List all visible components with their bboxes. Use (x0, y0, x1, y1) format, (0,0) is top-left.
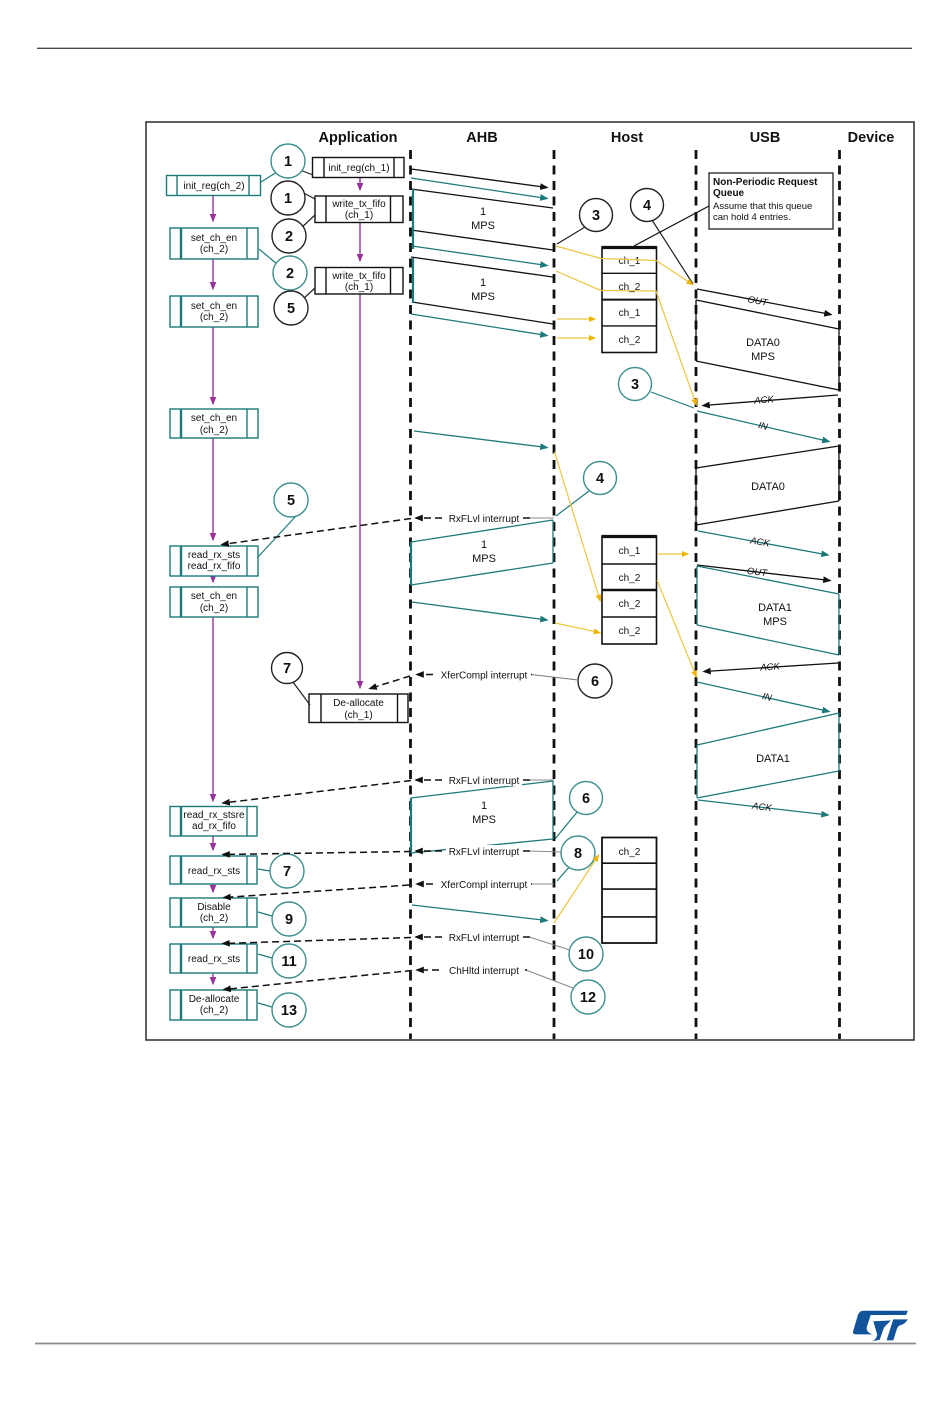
circle 1 (teal) (271, 144, 305, 178)
RxFLvl interrupt 2 diagonal (223, 781, 411, 804)
RxFLvl interrupt 3 dashed (416, 850, 530, 852)
wire purple 6-7 (212, 617, 214, 801)
svg-text:4: 4 (596, 471, 604, 487)
left app lifeline (purple) with arrows (212, 196, 214, 984)
RxFLvl interrupt 2 dashed (416, 779, 530, 781)
svg-text:DATA0: DATA0 (746, 337, 780, 349)
svg-text:1: 1 (480, 277, 486, 289)
svg-text:ACK: ACK (759, 661, 781, 673)
svg-text:init_reg(ch_1): init_reg(ch_1) (328, 163, 389, 174)
wire yellow host to q1 ch_2 row4 (557, 337, 594, 339)
svg-text:(ch_1): (ch_1) (345, 210, 373, 221)
wire yellow host to q1 ch_2 to usb ack point (556, 271, 696, 404)
svg-text:ch_1: ch_1 (619, 256, 641, 267)
wire yellow q2 ch_1 to usb (657, 553, 687, 555)
XferCompl interrupt 2 dashed (417, 883, 532, 885)
wire c9 to read_rx_sts box (258, 516, 296, 557)
wire c6 to host point (557, 227, 585, 244)
svg-text:ACK: ACK (753, 394, 775, 407)
circle 8 (teal) (561, 836, 595, 870)
circle 3 (teal) (619, 368, 652, 401)
circle 5 (black) (274, 291, 308, 325)
wire yellow host to q2 ch_2 row3 (555, 452, 601, 600)
wire yellow host to q1 ch_1 row3 (557, 318, 594, 320)
page bottom rule (35, 1343, 916, 1345)
svg-text:MPS: MPS (471, 220, 495, 232)
beam DATA1 (in, teal) (697, 713, 839, 798)
svg-text:read_rx_sts: read_rx_sts (188, 954, 240, 965)
queue table 2 (602, 536, 657, 644)
svg-text:7: 7 (283, 864, 291, 880)
circle 10 (teal) (569, 937, 603, 971)
wire purple 2-3 (212, 259, 214, 289)
arrow disable (teal) (412, 905, 547, 921)
RxFLvl interrupt 4 dashed (416, 936, 530, 938)
XferCompl interrupt 1 diagonal (370, 676, 410, 689)
circle 11 (teal) (272, 944, 306, 978)
svg-text:ACK: ACK (751, 801, 773, 815)
queue table 3 (602, 838, 657, 944)
wire c1 to init_reg(ch_2) (261, 172, 277, 182)
circle 9 (teal) (272, 902, 306, 936)
svg-text:(ch_1): (ch_1) (344, 710, 372, 721)
svg-text:ad_rx_fifo: ad_rx_fifo (192, 821, 236, 832)
wire c5 to write_tx_fifo#2 (302, 288, 315, 300)
svg-text:7: 7 (283, 661, 291, 677)
wire purple 9-10 (212, 927, 214, 938)
wire yellow host to q3 ch_2 (554, 856, 598, 923)
svg-text:IN: IN (761, 691, 773, 704)
band 1 MPS #4 (rx read, teal) (411, 781, 553, 853)
ChHltd interrupt dashed (417, 969, 527, 971)
svg-text:MPS: MPS (471, 291, 495, 303)
ChHltd interrupt diagonal (224, 971, 412, 990)
svg-text:Host: Host (611, 130, 643, 146)
svg-text:MPS: MPS (763, 616, 787, 628)
arrow set_ch_en#4 (teal) (412, 602, 547, 620)
Device lifeline (838, 150, 841, 1039)
svg-text:MPS: MPS (472, 553, 496, 565)
svg-text:DATA1: DATA1 (758, 602, 792, 614)
svg-text:Queue: Queue (713, 188, 745, 199)
wire c20 to De-allocate(ch_2) (258, 1003, 272, 1007)
beam DATA0 (in) (696, 446, 839, 525)
box set_ch_en (ch_2) #2 (170, 296, 258, 327)
svg-text:(ch_2): (ch_2) (200, 1005, 228, 1016)
application box labels (328, 163, 389, 721)
label RxFLvl interrupt 3 (446, 845, 522, 858)
Host lifeline (553, 150, 556, 1039)
wire purple 8-9 (212, 884, 214, 892)
svg-text:6: 6 (582, 791, 590, 807)
svg-text:3: 3 (592, 208, 600, 224)
circle 5 (teal) (274, 483, 308, 517)
USB lifeline (695, 150, 698, 1039)
wire yellow host to q1 ch_1 to usb (556, 246, 692, 284)
svg-text:11: 11 (281, 954, 296, 970)
box set_ch_en (ch_2) #3 (170, 409, 258, 438)
svg-text:1: 1 (284, 191, 292, 207)
application lifeline (purple) with arrows (359, 178, 361, 688)
arrow set_ch_en#2 (teal) (411, 314, 547, 336)
svg-text:De-allocate: De-allocate (333, 698, 384, 709)
left column boxes (teal) (167, 176, 261, 1021)
svg-text:10: 10 (578, 947, 594, 963)
box read_rx_sts #1 (170, 856, 257, 884)
circle 4 (teal) (584, 462, 617, 495)
svg-text:(ch_2): (ch_2) (200, 312, 228, 323)
wire purple A-B (359, 178, 361, 190)
svg-text:5: 5 (287, 301, 295, 317)
svg-text:5: 5 (287, 493, 295, 509)
svg-text:set_ch_en: set_ch_en (191, 301, 237, 312)
svg-text:read_rx_sts: read_rx_sts (188, 550, 240, 561)
svg-text:(ch_2): (ch_2) (200, 913, 228, 924)
XferCompl interrupt 2 gray tail (531, 883, 554, 885)
XferCompl interrupt 2 diagonal (224, 885, 409, 898)
wire purple 7-8 (212, 836, 214, 850)
connector lines from circles (258, 170, 694, 1007)
svg-text:set_ch_en: set_ch_en (191, 233, 237, 244)
svg-text:ch_2: ch_2 (619, 335, 641, 346)
circle 3 (black) (580, 199, 613, 232)
wire c13 to host point (555, 811, 578, 839)
svg-text:De-allocate: De-allocate (189, 994, 240, 1005)
arrow IN #1 (teal) (697, 411, 829, 442)
wire c10 to host point (556, 491, 589, 516)
label RxFLvl interrupt 2 (446, 774, 522, 787)
svg-text:(ch_2): (ch_2) (200, 425, 228, 436)
box read_rx_sts read_rx_fifo (170, 546, 258, 576)
arrow IN #2 (teal) (697, 682, 829, 712)
box set_ch_en (ch_2) #4 (170, 587, 258, 617)
wire purple B-C (359, 222, 361, 261)
svg-text:13: 13 (281, 1003, 297, 1019)
wire purple 1-2 (212, 196, 214, 221)
circle 2 (black) (272, 219, 306, 253)
box write_tx_fifo (ch_1) #1 (315, 196, 403, 223)
band 1 MPS #1 (411, 189, 553, 250)
svg-text:write_tx_fifo: write_tx_fifo (331, 271, 386, 282)
wire c7 to usb point (652, 220, 693, 284)
svg-text:1: 1 (481, 800, 487, 812)
wire yellow host to q2 ch_2 row4 (555, 623, 599, 633)
svg-text:3: 3 (631, 377, 639, 393)
svg-text:8: 8 (574, 846, 582, 862)
svg-text:Non-Periodic Request: Non-Periodic Request (713, 177, 818, 188)
RxFLvl interrupt 1 gray tail (529, 517, 554, 519)
diagram frame (146, 122, 914, 1040)
circle 4 (black) (631, 189, 664, 222)
svg-text:MPS: MPS (472, 814, 496, 826)
wire purple 10-11 (212, 973, 214, 984)
svg-text:DATA1: DATA1 (756, 753, 790, 765)
box read_rx_sts #2 (170, 944, 257, 973)
svg-text:(ch_2): (ch_2) (200, 244, 228, 255)
label ChHltd interrupt (443, 964, 525, 977)
circle 1 (black) (271, 181, 305, 215)
application column boxes (black) (309, 158, 408, 723)
circle 12 (teal) (571, 980, 605, 1014)
svg-text:2: 2 (286, 266, 294, 282)
XferCompl interrupt 1 gray tail to circle 6 (531, 675, 578, 681)
svg-text:USB: USB (750, 130, 781, 146)
RxFLvl interrupt 1 dashed (416, 517, 530, 519)
circle 6 (black) (578, 664, 612, 698)
svg-text:ch_1: ch_1 (619, 546, 641, 557)
wire purple 3-4 (212, 326, 214, 404)
svg-text:(ch_1): (ch_1) (345, 282, 373, 293)
wire purple C-D (359, 293, 361, 688)
svg-text:set_ch_en: set_ch_en (191, 413, 237, 424)
left column box labels (183, 181, 245, 1016)
svg-text:RxFLvl interrupt: RxFLvl interrupt (449, 514, 520, 525)
arrow OUT #2 (697, 565, 830, 581)
svg-text:9: 9 (285, 912, 293, 928)
svg-text:1: 1 (481, 539, 487, 551)
svg-text:ChHltd interrupt: ChHltd interrupt (449, 966, 519, 977)
wire c4 to set_ch_en#1 (259, 249, 277, 264)
svg-text:can hold 4 entries.: can hold 4 entries. (713, 212, 791, 223)
label RxFLvl interrupt 4 (446, 931, 522, 944)
svg-text:init_reg(ch_2): init_reg(ch_2) (183, 181, 244, 192)
page top rule (37, 47, 912, 49)
box De-allocate (ch_2) (170, 990, 257, 1020)
box write_tx_fifo (ch_1) #2 (315, 268, 403, 295)
label XferCompl interrupt 1 (437, 669, 531, 682)
interrupt arrows (222, 518, 578, 990)
svg-text:write_tx_fifo: write_tx_fifo (331, 199, 386, 210)
circle 13 (teal) (272, 993, 306, 1027)
circle 6 (teal) (570, 782, 603, 815)
wire c2 to write_tx_fifo#1 (300, 191, 315, 199)
svg-text:DATA0: DATA0 (751, 481, 785, 493)
arrow init_reg write (teal) (411, 178, 547, 199)
arrow ACK #3 (device to usb) (704, 663, 838, 672)
AHB to Host command arrows and MPS bands (411, 169, 553, 921)
svg-text:read_rx_stsre: read_rx_stsre (183, 810, 245, 821)
svg-text:1: 1 (284, 154, 292, 170)
wire c16 to Disable box (258, 912, 272, 916)
svg-text:ch_1: ch_1 (619, 308, 641, 319)
svg-text:4: 4 (643, 198, 651, 214)
svg-text:RxFLvl interrupt: RxFLvl interrupt (449, 933, 520, 944)
RxFLvl interrupt 3 gray tail to circle 8 (529, 851, 562, 852)
box De-allocate (ch_1) (309, 694, 408, 723)
RxFLvl interrupt 1 diagonal (222, 519, 411, 545)
box set_ch_en (ch_2) #1 (170, 228, 258, 259)
svg-text:set_ch_en: set_ch_en (191, 591, 237, 602)
svg-text:XferCompl interrupt: XferCompl interrupt (441, 880, 528, 891)
svg-text:XferCompl interrupt: XferCompl interrupt (441, 671, 528, 682)
svg-text:ch_2: ch_2 (619, 573, 641, 584)
USB to Device transactions (696, 289, 839, 815)
circle 2 (teal) (273, 256, 307, 290)
svg-text:(ch_2): (ch_2) (200, 603, 228, 614)
wire yellow q2 ch_2 to usb ack point (657, 580, 696, 676)
wire c11 to De-allocate(ch_1) (293, 682, 310, 705)
circle 7 (black) (272, 653, 303, 684)
svg-text:RxFLvl interrupt: RxFLvl interrupt (449, 847, 520, 858)
RxFLvl interrupt 4 diagonal (223, 938, 411, 944)
arrow ACK #2 (usb to device, teal) (698, 531, 828, 555)
wire c14 to host point (557, 866, 570, 881)
RxFLvl interrupt 3 diagonal (223, 852, 411, 855)
AHB lifeline (409, 150, 412, 1039)
wire c18 to read_rx_sts#2 (258, 954, 272, 958)
svg-text:Application: Application (319, 130, 398, 146)
svg-text:Device: Device (848, 130, 895, 146)
band 1 MPS #3 (rx read, teal) (411, 520, 553, 585)
svg-text:1: 1 (480, 206, 486, 218)
wire note pointer (634, 206, 709, 246)
arrow OUT #1 (697, 289, 831, 315)
RxFLvl interrupt 2 gray tail (529, 779, 554, 781)
ChHltd interrupt gray tail to circle 12 (526, 970, 573, 988)
numbered circles (270, 144, 664, 1027)
interrupt labels (437, 512, 531, 977)
band 1 MPS #2 (411, 257, 553, 324)
svg-text:12: 12 (580, 990, 596, 1006)
svg-text:read_rx_fifo: read_rx_fifo (188, 561, 241, 572)
svg-text:RxFLvl interrupt: RxFLvl interrupt (449, 776, 520, 787)
arrow init_reg write (black) (411, 169, 547, 188)
box Disable (ch_2) (170, 898, 257, 927)
svg-text:Assume that this queue: Assume that this queue (713, 201, 812, 212)
box init_reg(ch_1) (313, 158, 405, 178)
svg-text:read_rx_sts: read_rx_sts (188, 866, 240, 877)
wire purple 5-6 (212, 576, 214, 582)
wire c1 to init_reg(ch_1) (300, 170, 313, 175)
svg-text:ch_2: ch_2 (619, 599, 641, 610)
wire c15 to read_rx_sts (258, 869, 270, 871)
yellow queue link lines (554, 246, 696, 923)
svg-text:ch_2: ch_2 (619, 847, 641, 858)
wire purple 4-5 (212, 438, 214, 540)
wire c3 to write_tx_fifo#1 (300, 215, 315, 229)
svg-text:MPS: MPS (751, 351, 775, 363)
svg-text:6: 6 (591, 674, 599, 690)
svg-text:IN: IN (757, 420, 769, 433)
svg-text:2: 2 (285, 229, 293, 245)
XferCompl interrupt 1 dashed (417, 674, 532, 676)
RxFLvl interrupt 4 gray tail to circle 10 (529, 937, 570, 950)
box read_rx_stsre ad_rx_fifo (170, 807, 257, 837)
arrow ACK #4 (usb to device, teal) (698, 800, 828, 815)
label RxFLvl interrupt 1 (446, 512, 522, 525)
svg-text:Disable: Disable (197, 902, 231, 913)
circle 7 (teal) (270, 854, 304, 888)
arrow set_ch_en#1 (teal) (412, 246, 547, 266)
svg-text:ch_2: ch_2 (619, 626, 641, 637)
beam DATA0 MPS (out) (696, 300, 839, 390)
wire c8 to usb point (651, 392, 694, 408)
label XferCompl interrupt 2 (437, 878, 531, 891)
svg-text:AHB: AHB (466, 130, 497, 146)
queue table 1 (602, 247, 657, 353)
note box Non-Periodic Request Queue (634, 173, 833, 246)
arrow ACK #1 (device to usb) (703, 395, 838, 406)
svg-text:ACK: ACK (748, 535, 771, 550)
box init_reg(ch_2) (167, 176, 261, 196)
ST logo (853, 1311, 908, 1342)
beam DATA1 MPS (out, teal) (697, 566, 839, 655)
arrow set_ch_en#3 (teal) (414, 431, 547, 448)
svg-text:OUT: OUT (747, 294, 770, 309)
